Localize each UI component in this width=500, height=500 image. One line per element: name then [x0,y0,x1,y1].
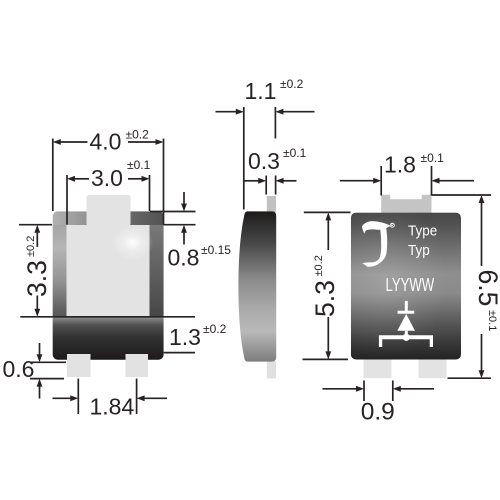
top tab of front view [87,195,131,226]
dimension 0.9 [323,381,435,402]
marking text Typ [408,242,430,259]
marking body [351,213,461,360]
svg-text:±0.1: ±0.1 [486,310,498,331]
right leg [126,354,149,377]
svg-text:1.3: 1.3 [169,324,201,350]
dimension 1.1 [216,107,315,210]
dimension 5.3 (rotated) [303,212,351,359]
dimension 3.0 [67,175,150,225]
package body front view [53,211,164,360]
svg-text:±0.2: ±0.2 [25,236,37,257]
dimension 4.0 [53,139,164,225]
dimension 1.3 [20,317,195,353]
svg-text:±0.2: ±0.2 [313,255,325,276]
svg-text:1.84: 1.84 [90,394,135,420]
side view bottom lead [267,361,276,379]
dimension 0.6 [30,343,66,399]
svg-text:±0.1: ±0.1 [283,146,307,160]
marking text LYYWW [386,275,435,296]
svg-text:±0.1: ±0.1 [127,158,151,172]
svg-text:4.0: 4.0 [90,128,122,154]
dimension 3.3 (rotated) [19,225,52,309]
svg-text:±0.1: ±0.1 [421,151,445,165]
dimension 6.5 (rotated) [432,195,492,378]
svg-text:3.3: 3.3 [22,260,52,297]
svg-text:0.8: 0.8 [168,245,200,271]
svg-text:0.3: 0.3 [248,148,280,174]
svg-text:0.9: 0.9 [361,399,395,426]
dimension 0.8 [150,192,196,245]
marking text Type [408,223,437,240]
side view top lead [267,196,276,213]
svg-text:Type: Type [408,223,437,240]
registered mark [390,223,394,227]
svg-text:±0.15: ±0.15 [201,243,231,257]
top tab of marking view [381,195,431,214]
svg-text:1.8: 1.8 [384,152,416,178]
svg-text:1.1: 1.1 [245,78,277,104]
diode symbol [379,301,433,347]
svg-text:±0.2: ±0.2 [280,77,304,91]
dimension 1.8 [340,166,474,196]
side view body [238,211,276,361]
svg-text:5.3: 5.3 [310,280,340,317]
Diotec logo [362,221,391,267]
bottom-left leg [364,360,392,379]
dimension 1.84 [53,379,168,414]
svg-text:±0.2: ±0.2 [203,322,227,336]
left leg [67,354,91,377]
bottom-right leg [419,360,447,379]
svg-text:0.6: 0.6 [3,356,35,382]
molded inner body [67,225,150,317]
svg-text:6.5: 6.5 [473,270,500,307]
svg-text:±0.2: ±0.2 [126,128,150,142]
svg-text:LYYWW: LYYWW [386,275,435,296]
dimension 0.3 [245,176,297,195]
svg-text:Typ: Typ [408,242,430,259]
svg-text:3.0: 3.0 [91,165,123,191]
